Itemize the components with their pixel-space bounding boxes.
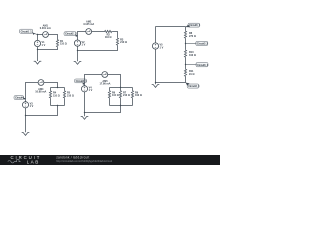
net flag Circuit3_2 — [195, 41, 209, 45]
junction V3 bottom — [25, 115, 26, 116]
wire node1 to flag — [186, 43, 196, 45]
svg-text:310 Ω: 310 Ω — [135, 94, 142, 97]
wire R10 to R11 — [185, 58, 187, 69]
junction box3 bottom — [57, 105, 58, 106]
svg-text:Circuit3_4: Circuit3_4 — [188, 85, 200, 88]
voltage source V5 — [152, 43, 158, 49]
wire V3 to ground — [25, 108, 27, 132]
junction V2 bottom — [77, 50, 78, 51]
ammeter AM4 — [38, 80, 44, 86]
net flag block3 — [14, 96, 26, 100]
resistor R11 — [184, 69, 186, 77]
net flag Circuit3_3 — [195, 63, 209, 67]
label R10 310 Ohm — [189, 51, 196, 57]
svg-text:210 Ω: 210 Ω — [123, 94, 130, 97]
resistor R7 — [119, 90, 121, 98]
label AM5 17.86 mA — [100, 80, 111, 86]
svg-text:LAB: LAB — [27, 159, 40, 164]
label AM4 10.88 mA — [35, 88, 46, 94]
svg-text:10.88 mA: 10.88 mA — [35, 91, 46, 94]
wire box3 return — [26, 106, 58, 116]
label R6 110 Ohm — [112, 92, 119, 98]
svg-text:3.135 mA: 3.135 mA — [83, 23, 94, 26]
junction V5 bottom — [155, 82, 156, 83]
wire R4 top stub — [50, 88, 52, 91]
svg-text:110 Ω: 110 Ω — [53, 94, 60, 97]
svg-text:17.86 mA: 17.86 mA — [100, 83, 111, 86]
wire to ground block5 — [155, 83, 157, 85]
svg-text:1 V: 1 V — [82, 44, 86, 47]
wire top rail block5 — [156, 26, 186, 28]
wire V1 to ground — [37, 47, 39, 61]
wire box3 top rail — [51, 87, 65, 89]
wire R9 top stub — [132, 88, 134, 91]
svg-text:110 Ω: 110 Ω — [112, 94, 119, 97]
wire V2 top to AM2 — [78, 32, 86, 41]
resistor R1 — [56, 39, 58, 47]
junction V1 bottom — [37, 49, 38, 50]
wire AM2 to R2 — [92, 31, 104, 33]
svg-text:91 Ω: 91 Ω — [189, 73, 194, 76]
svg-text:310 Ω: 310 Ω — [189, 54, 196, 57]
label R8 270 Ohm — [189, 32, 196, 38]
svg-text:110 Ω: 110 Ω — [60, 43, 67, 46]
resistor R3 — [116, 37, 118, 45]
resistor R4 — [49, 90, 51, 98]
ground block1 — [34, 61, 42, 64]
wire AM1 to R1 — [48, 35, 57, 40]
svg-text:Circuit3_2: Circuit3_2 — [197, 43, 209, 46]
wire V2 to ground — [77, 46, 79, 61]
wire R7 top stub — [120, 88, 122, 91]
ground block3 — [22, 133, 30, 136]
resistor R5 — [63, 90, 65, 98]
wire node to V1 top — [37, 35, 39, 41]
net flag Circuit3_1 — [185, 23, 200, 27]
label R7 210 Ohm — [123, 92, 130, 98]
wire chain top — [185, 27, 187, 31]
svg-text:Circuit3_1: Circuit3_1 — [189, 24, 201, 27]
net flag Circuit4_1 — [75, 79, 88, 85]
net flag Circuit2_1 — [64, 32, 78, 37]
junction box3 top — [57, 87, 58, 88]
resistor R9 — [131, 90, 133, 98]
label V1 1 V — [42, 41, 46, 47]
wire box4 top rail — [110, 87, 133, 89]
label V4 1 V — [89, 87, 93, 93]
svg-text:1 V: 1 V — [30, 105, 34, 108]
wire R8 to R10 — [185, 39, 187, 50]
label V2 1 V — [82, 41, 86, 47]
svg-text:Circuit4_1: Circuit4_1 — [76, 80, 88, 83]
voltage source V4 — [81, 86, 87, 92]
svg-text:110 Ω: 110 Ω — [105, 36, 112, 39]
wire R1 bottom to V1 branch — [38, 47, 58, 49]
wire V4 top riser to AM5 — [85, 75, 102, 86]
label R2 110 Ohm — [105, 34, 112, 40]
wire box4 return — [85, 106, 121, 113]
wire R6 top stub — [109, 88, 111, 91]
svg-text:zandonk / lab1circuit: zandonk / lab1circuit — [56, 155, 89, 159]
label R1 110 Ohm — [60, 40, 67, 46]
wire box3 bottom rail — [51, 105, 65, 107]
junction node2 — [185, 64, 186, 65]
voltage source V1 — [34, 40, 40, 46]
voltage source V2 — [74, 40, 80, 46]
ground block4 — [81, 117, 89, 120]
wire AM5 to box4 — [108, 75, 121, 88]
junction node block1 top — [37, 34, 38, 35]
svg-text:270 Ω: 270 Ω — [189, 35, 196, 38]
svg-text:Circuit3_3: Circuit3_3 — [197, 64, 209, 67]
svg-text:http://circuitlab.com/c/h23fqh: http://circuitlab.com/c/h23fqhgvb224/lab… — [56, 159, 112, 163]
resistor R6 — [108, 90, 110, 98]
resistor R10 — [184, 49, 186, 57]
label R4 110 Ohm — [53, 92, 60, 98]
wire flag3 to node — [24, 97, 25, 99]
wire R9 bottom stub — [132, 99, 134, 106]
wire V5 bottom — [155, 49, 157, 82]
net flag Circuit1_1 — [20, 29, 36, 35]
wire flag2 to node — [76, 35, 77, 37]
wire box4 bottom rail — [110, 105, 133, 107]
wire chain bottom rail — [156, 77, 186, 83]
label R5 210 Ohm — [67, 92, 74, 98]
footer logo CIRCUIT LAB — [8, 155, 41, 164]
label V3 1 V — [30, 103, 34, 109]
svg-text:210 Ω: 210 Ω — [120, 41, 127, 44]
svg-text:1 V: 1 V — [89, 89, 93, 92]
svg-text:Circuit1_1: Circuit1_1 — [21, 30, 33, 33]
wire node to AM1 — [38, 34, 43, 36]
junction box4 bottom — [120, 105, 121, 106]
ammeter AM1 — [43, 32, 49, 38]
junction V4 bottom — [84, 112, 85, 113]
ammeter AM2 — [86, 29, 92, 35]
wire R3 bottom rail — [78, 46, 118, 51]
svg-text:1 V: 1 V — [42, 44, 46, 47]
svg-text:1 V: 1 V — [160, 46, 164, 49]
ground block2 — [74, 62, 82, 65]
junction box4 top — [120, 87, 121, 88]
wire V5 top — [155, 27, 157, 43]
wire R4 bottom stub — [50, 99, 52, 106]
ammeter AM5 — [102, 72, 108, 78]
svg-text:Circuit2_1: Circuit2_1 — [65, 33, 77, 36]
wire V4 to ground — [84, 92, 86, 116]
svg-text:Circuit4: Circuit4 — [15, 97, 24, 100]
label R11 91 Ohm — [189, 70, 194, 76]
resistor R8 — [184, 30, 186, 38]
wire R2 to R3 — [112, 32, 117, 38]
resistor R2 — [104, 30, 112, 32]
net flag Circuit3_4 — [186, 83, 200, 89]
svg-text:210 Ω: 210 Ω — [67, 94, 74, 97]
label V5 1 V — [160, 44, 164, 50]
ground block5 — [152, 85, 160, 88]
wire AM4 to box3 — [44, 83, 58, 88]
voltage source V3 — [22, 102, 28, 108]
label AM1 0.001 mA — [40, 24, 51, 30]
wire flag4 to node — [83, 83, 86, 85]
wire V3 top riser to AM4 — [26, 83, 39, 102]
junction node1 — [185, 43, 186, 44]
wire R5 bottom stub — [64, 99, 66, 106]
wire R6 bottom stub — [109, 99, 111, 106]
label AM2 3.135 mA — [83, 20, 94, 26]
svg-text:0.001 mA: 0.001 mA — [40, 27, 51, 30]
label R3 210 Ohm — [120, 38, 127, 44]
wire node2 to flag — [186, 64, 196, 66]
wire R5 top stub — [64, 88, 66, 91]
wire flag1 to node — [34, 33, 38, 34]
wire R7 bottom stub — [120, 99, 122, 106]
label R9 310 Ohm — [135, 92, 142, 98]
